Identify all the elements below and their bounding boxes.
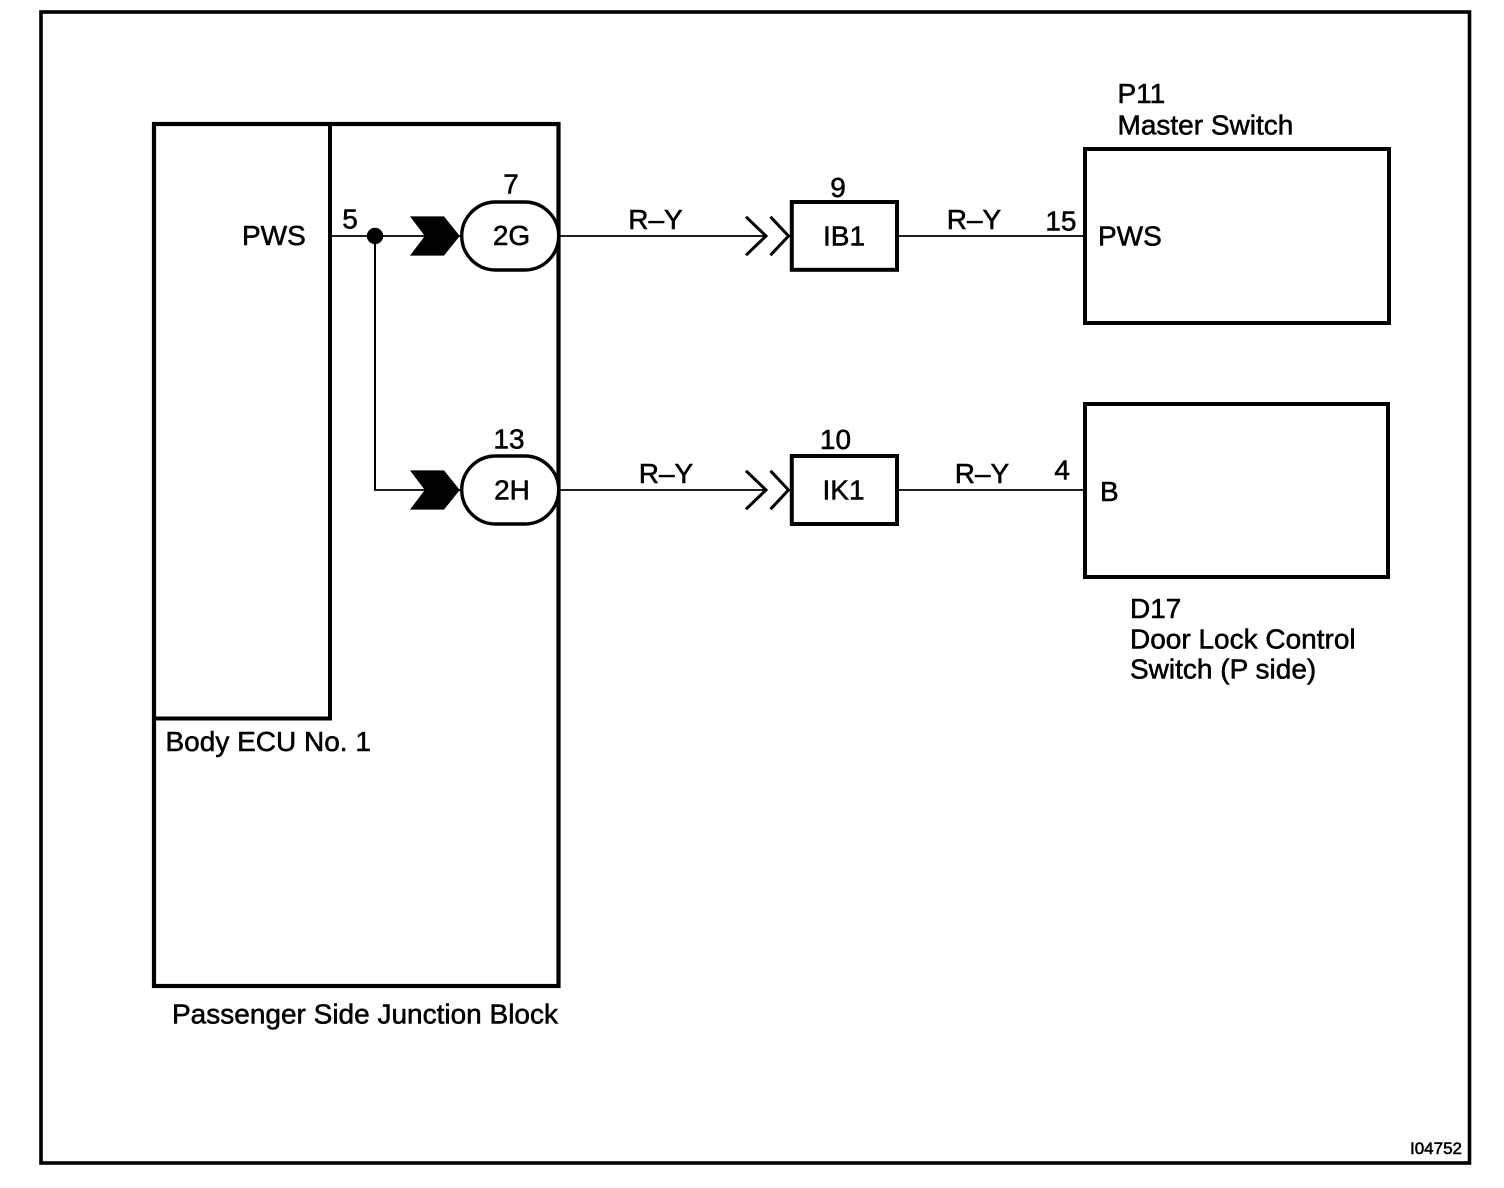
svg-text:Switch (P side): Switch (P side) <box>1130 654 1316 685</box>
door lock control switch box D17 <box>1085 404 1388 577</box>
svg-text:PWS: PWS <box>242 220 306 251</box>
svg-text:PWS: PWS <box>1098 221 1162 252</box>
svg-text:9: 9 <box>830 172 846 203</box>
svg-text:7: 7 <box>503 169 519 200</box>
connector IB1 <box>792 202 897 270</box>
svg-text:5: 5 <box>342 204 358 235</box>
svg-text:R–Y: R–Y <box>628 204 683 235</box>
chevron splice marks row 1 <box>746 217 766 255</box>
svg-text:13: 13 <box>493 424 524 455</box>
svg-text:IB1: IB1 <box>823 221 865 252</box>
connector oval 2G <box>462 202 559 270</box>
svg-text:I04752: I04752 <box>1410 1139 1462 1158</box>
svg-text:P11: P11 <box>1118 78 1166 109</box>
body ECU box <box>154 124 330 719</box>
svg-text:B: B <box>1100 476 1119 507</box>
arrow into 2H <box>410 470 460 509</box>
svg-text:15: 15 <box>1045 206 1076 237</box>
svg-text:2H: 2H <box>494 475 530 506</box>
junction node dot <box>367 228 383 244</box>
wire: branch to connector 2H <box>374 489 766 491</box>
svg-text:R–Y: R–Y <box>639 458 694 489</box>
wire: vertical branch from node down <box>374 236 376 490</box>
svg-text:Body ECU No. 1: Body ECU No. 1 <box>166 726 371 757</box>
svg-text:Passenger Side Junction Block: Passenger Side Junction Block <box>172 999 559 1030</box>
svg-text:R–Y: R–Y <box>955 458 1010 489</box>
svg-text:IK1: IK1 <box>822 475 864 506</box>
wire: IB1 to master switch <box>899 235 1084 237</box>
wire: Body ECU pin 5 to connector 2G <box>332 235 766 237</box>
svg-text:R–Y: R–Y <box>947 204 1002 235</box>
wire: IK1 to door lock control switch <box>897 489 1084 491</box>
svg-text:Master Switch: Master Switch <box>1118 110 1294 141</box>
arrow into 2G <box>410 216 460 255</box>
svg-text:4: 4 <box>1054 455 1070 486</box>
svg-text:2G: 2G <box>493 220 530 251</box>
master switch box P11 <box>1085 149 1389 323</box>
svg-text:Door Lock Control: Door Lock Control <box>1130 624 1356 655</box>
svg-text:D17: D17 <box>1130 593 1181 624</box>
chevron splice marks row 2 <box>746 471 766 509</box>
connector IK1 <box>792 456 897 524</box>
connector oval 2H <box>462 456 559 524</box>
junction block J/B outline <box>154 124 559 986</box>
svg-text:10: 10 <box>820 424 851 455</box>
